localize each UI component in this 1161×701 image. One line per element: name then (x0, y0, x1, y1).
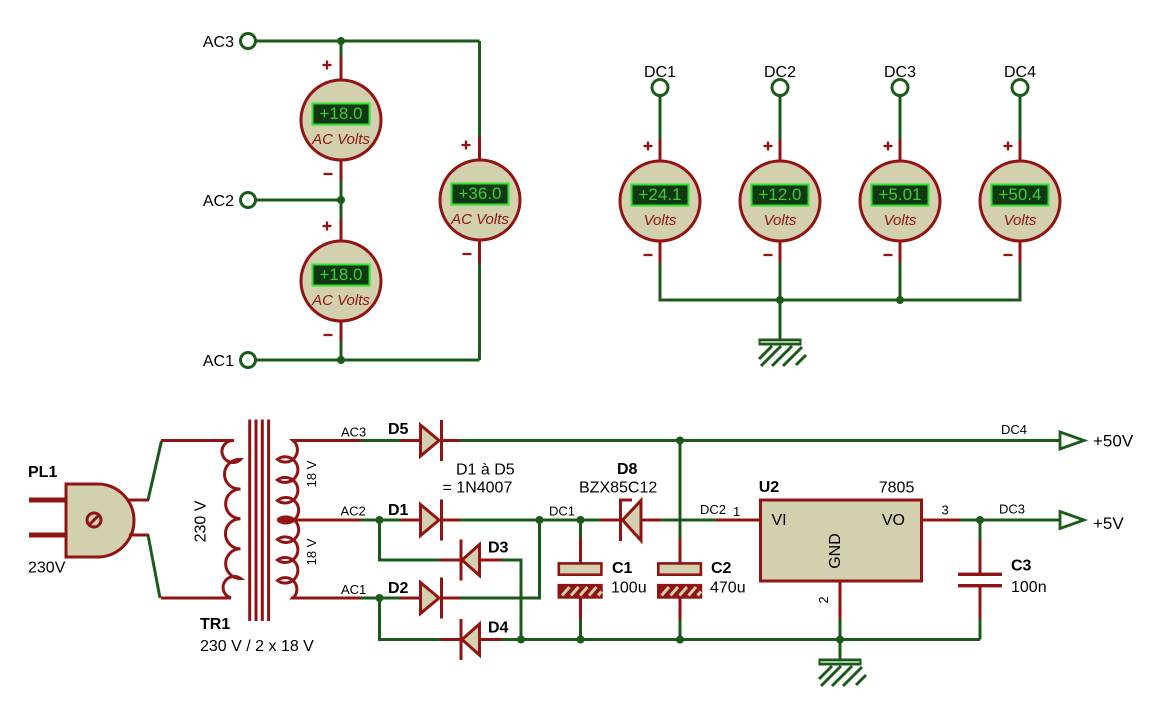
wire AC2 row red pin (278, 519, 363, 522)
svg-text:+50.4: +50.4 (998, 185, 1041, 204)
voltmeter +50.4 Volts (980, 161, 1060, 241)
terminal AC3 (241, 34, 256, 49)
svg-text:AC1: AC1 (203, 353, 234, 370)
junction node rail D3 (517, 636, 525, 644)
regulator U2 7805 (759, 479, 961, 640)
svg-text:+50V: +50V (1093, 432, 1134, 451)
wire AC1 row red pin (291, 597, 362, 600)
wire D5 to DC4 (460, 439, 1060, 442)
wire negative rail (502, 638, 980, 641)
plate negative hatched (559, 585, 602, 597)
wire DC3 down (899, 96, 902, 142)
voltmeter +5.01 Volts (860, 161, 940, 241)
wire right branch vertical (478, 41, 481, 138)
svg-text:+36.0: +36.0 (458, 184, 501, 203)
diode D3 1N4007 (440, 540, 509, 581)
svg-text:Volts: Volts (884, 212, 917, 229)
lead bottom green (979, 619, 982, 640)
junction node DC2 rail (776, 296, 784, 304)
wire M2 bottom green (340, 341, 343, 360)
plate negative hatched (658, 585, 701, 597)
svg-text:AC2: AC2 (341, 504, 366, 519)
wire M1 bottom red pin (340, 159, 343, 181)
lead top red (579, 538, 582, 564)
junction node rail C1 (577, 636, 585, 644)
svg-text:1: 1 (733, 504, 740, 519)
voltmeter +24.1 Volts (620, 161, 700, 241)
wire D8 to U2 green (660, 519, 717, 522)
wire diagonal top (148, 441, 162, 500)
cathode wire red (600, 519, 620, 522)
svg-text:230 V: 230 V (193, 500, 210, 542)
lead top red (679, 538, 682, 564)
primary winding 230V (161, 440, 241, 598)
junction node AC1/D4 (376, 594, 384, 602)
svg-text:DC2: DC2 (700, 502, 726, 517)
plate positive (658, 563, 701, 574)
svg-text:18 V: 18 V (304, 460, 319, 487)
wire D3 down to negative rail (502, 560, 521, 640)
pin 3 wire red (922, 519, 962, 522)
terminal AC2 (241, 193, 256, 208)
wire M1 top green (340, 41, 343, 58)
pin red bottom (779, 240, 782, 263)
svg-text:D8: D8 (617, 461, 638, 478)
svg-text:PL1: PL1 (28, 464, 57, 481)
wire AC2 node down to D3 (380, 522, 441, 560)
plate positive (559, 563, 602, 574)
terminal DC1 (652, 80, 668, 96)
svg-text:U2: U2 (759, 479, 780, 496)
voltmeter column DC4 (980, 64, 1060, 263)
svg-text:+5V: +5V (1093, 514, 1124, 533)
svg-text:100n: 100n (1011, 579, 1047, 596)
svg-text:+5.01: +5.01 (878, 185, 921, 204)
svg-text:TR1: TR1 (200, 616, 230, 633)
wire M1 top red pin (340, 57, 343, 81)
wire AC1 green to node (361, 597, 401, 600)
secondary winding lower 18V (278, 517, 311, 598)
voltmeter column DC3 (860, 64, 940, 304)
pin 2 wire red (839, 581, 842, 620)
svg-text:Volts: Volts (764, 212, 797, 229)
pin red top (1019, 140, 1022, 162)
anode wire red (641, 519, 661, 522)
junction node AC2/D3 (376, 516, 384, 524)
wire AC3 horizontal (256, 40, 480, 43)
ground symbol bottom (819, 640, 867, 687)
junction node rail C2 (676, 636, 684, 644)
lead top red (979, 541, 982, 573)
svg-text:VO: VO (882, 512, 905, 529)
svg-text:DC3: DC3 (999, 502, 1025, 517)
pin wire top (127, 499, 149, 502)
wire diagonal bottom (148, 535, 160, 598)
pin red bottom (659, 240, 662, 263)
pin 2 wire green (839, 619, 842, 640)
svg-text:AC Volts: AC Volts (311, 292, 370, 309)
svg-text:AC1: AC1 (341, 582, 366, 597)
lead bottom red (579, 597, 582, 621)
junction node AC2 (337, 196, 345, 204)
ground symbol top-right (759, 300, 807, 366)
terminal DC4 (1012, 80, 1028, 96)
pin red top (659, 140, 662, 162)
plate 2 (958, 584, 1002, 587)
transformer TR1 (161, 420, 319, 656)
svg-text:2: 2 (816, 596, 831, 603)
svg-text:GND: GND (827, 533, 844, 569)
capacitor C1 100u (559, 522, 647, 640)
pin wire bottom (129, 534, 149, 537)
wire AC2 horizontal (256, 199, 341, 202)
lead top green (979, 522, 982, 542)
junction node D5 out / C2 branch (676, 437, 684, 445)
output arrow +5V (1060, 512, 1084, 529)
wire to rail (899, 262, 902, 300)
junction node AC1 (337, 356, 345, 364)
svg-text:470u: 470u (710, 580, 746, 597)
svg-text:3: 3 (942, 503, 949, 518)
svg-text:+24.1: +24.1 (638, 185, 681, 204)
lead bottom green (579, 620, 582, 640)
svg-text:C2: C2 (711, 560, 732, 577)
capacitor C2 470u (658, 538, 745, 640)
terminal DC2 (772, 80, 788, 96)
svg-text:D1: D1 (388, 502, 409, 519)
svg-text:DC1: DC1 (644, 64, 676, 81)
voltmeter column DC2 (740, 64, 820, 304)
wire AC1 node down to D4 row (380, 600, 441, 640)
svg-text:100u: 100u (611, 580, 647, 597)
svg-text:DC1: DC1 (549, 504, 575, 519)
diode D4 1N4007 (440, 619, 509, 660)
secondary winding upper 18V (278, 441, 311, 524)
wire M1 to AC2 node (340, 180, 343, 220)
svg-text:DC3: DC3 (884, 64, 916, 81)
svg-text:Volts: Volts (644, 212, 677, 229)
wire right branch lower vertical (478, 262, 481, 360)
junction node DC3/C3 (976, 516, 984, 524)
svg-text:7805: 7805 (879, 480, 915, 497)
svg-text:BZX85C12: BZX85C12 (579, 480, 657, 497)
svg-text:VI: VI (772, 512, 787, 529)
terminal DC3 (892, 80, 908, 96)
wire AC3 row red pin (308, 439, 362, 442)
output arrow +50V (1060, 432, 1084, 449)
zener diode D8 BZX85C12 (579, 461, 661, 541)
svg-text:D1 à D5: D1 à D5 (456, 462, 515, 479)
wire DC4 down (1019, 96, 1022, 142)
svg-text:AC3: AC3 (203, 34, 234, 51)
svg-text:C3: C3 (1011, 558, 1032, 575)
diode D5 1N4007 (388, 420, 461, 461)
svg-text:AC3: AC3 (341, 425, 366, 440)
svg-text:Volts: Volts (1004, 212, 1037, 229)
capacitor C3 100n (958, 522, 1047, 640)
diode D1 1N4007 (388, 500, 461, 541)
prong 1 (29, 498, 66, 503)
voltmeter M1 +18.0 AC Volts (301, 61, 381, 175)
screw (87, 513, 101, 527)
svg-text:230 V / 2 x 18 V: 230 V / 2 x 18 V (200, 638, 314, 655)
svg-text:DC4: DC4 (1001, 422, 1027, 437)
pin red bottom (899, 240, 902, 263)
lead top green (579, 522, 582, 539)
junction node DC1 a (536, 516, 544, 524)
svg-text:DC4: DC4 (1004, 64, 1036, 81)
pin 1 red wire (716, 519, 761, 522)
wire DC1 down (659, 96, 662, 142)
svg-text:D4: D4 (488, 620, 509, 637)
prong 2 (29, 533, 66, 538)
wire DC2 down (779, 96, 782, 142)
junction node rail GND (836, 636, 844, 644)
wire AC1 horizontal (256, 359, 480, 362)
pin red bottom (1019, 240, 1022, 263)
wire M2 bottom red pin (340, 320, 343, 342)
cathode bar with tab (621, 500, 633, 541)
svg-text:+18.0: +18.0 (319, 265, 362, 284)
pin red top (779, 140, 782, 162)
wire pin3 to DC3 arrow (960, 519, 1060, 522)
terminal AC1 (241, 353, 256, 368)
wire M3 top red pin (478, 137, 481, 161)
wire AC3 row green (361, 439, 401, 442)
junction node AC3 (337, 37, 345, 45)
triangle (623, 501, 642, 541)
svg-text:AC Volts: AC Volts (311, 131, 370, 148)
voltmeter M2 +18.0 AC Volts (301, 222, 381, 336)
svg-text:230V: 230V (28, 560, 66, 577)
wire to rail (779, 262, 782, 300)
svg-text:DC2: DC2 (764, 64, 796, 81)
wire ground rail top-right (660, 262, 1020, 300)
wire AC2 row green to node (361, 519, 401, 522)
mains plug PL1 (28, 441, 162, 598)
wire M2 top red pin (340, 219, 343, 242)
diode D2 1N4007 (388, 578, 461, 619)
voltmeter M3 +36.0 AC Volts (440, 141, 520, 255)
svg-text:18 V: 18 V (304, 538, 319, 565)
lead bottom green (679, 620, 682, 640)
wire M3 bottom red pin (478, 239, 481, 263)
svg-text:+12.0: +12.0 (758, 185, 801, 204)
junction node DC3 rail (896, 296, 904, 304)
pin red top (899, 140, 902, 162)
lead bottom red (979, 587, 982, 620)
svg-text:= 1N4007: = 1N4007 (443, 480, 513, 497)
core (248, 420, 251, 622)
wire C2 branch vertical (679, 441, 682, 540)
wire D1 to DC1 node (460, 519, 600, 522)
plug body (66, 484, 134, 557)
svg-text:C1: C1 (612, 560, 633, 577)
svg-text:D3: D3 (488, 540, 509, 557)
voltmeter +12.0 Volts (740, 161, 820, 241)
svg-text:+18.0: +18.0 (319, 104, 362, 123)
plate 1 (958, 573, 1002, 576)
svg-text:AC2: AC2 (203, 193, 234, 210)
svg-text:D2: D2 (388, 580, 409, 597)
lead bottom red (679, 597, 682, 621)
svg-text:AC Volts: AC Volts (450, 211, 509, 228)
voltmeter column DC1 (620, 64, 700, 263)
wire D2 up to DC1 node (460, 522, 540, 598)
svg-text:D5: D5 (388, 421, 409, 438)
junction node DC1 b (577, 516, 585, 524)
